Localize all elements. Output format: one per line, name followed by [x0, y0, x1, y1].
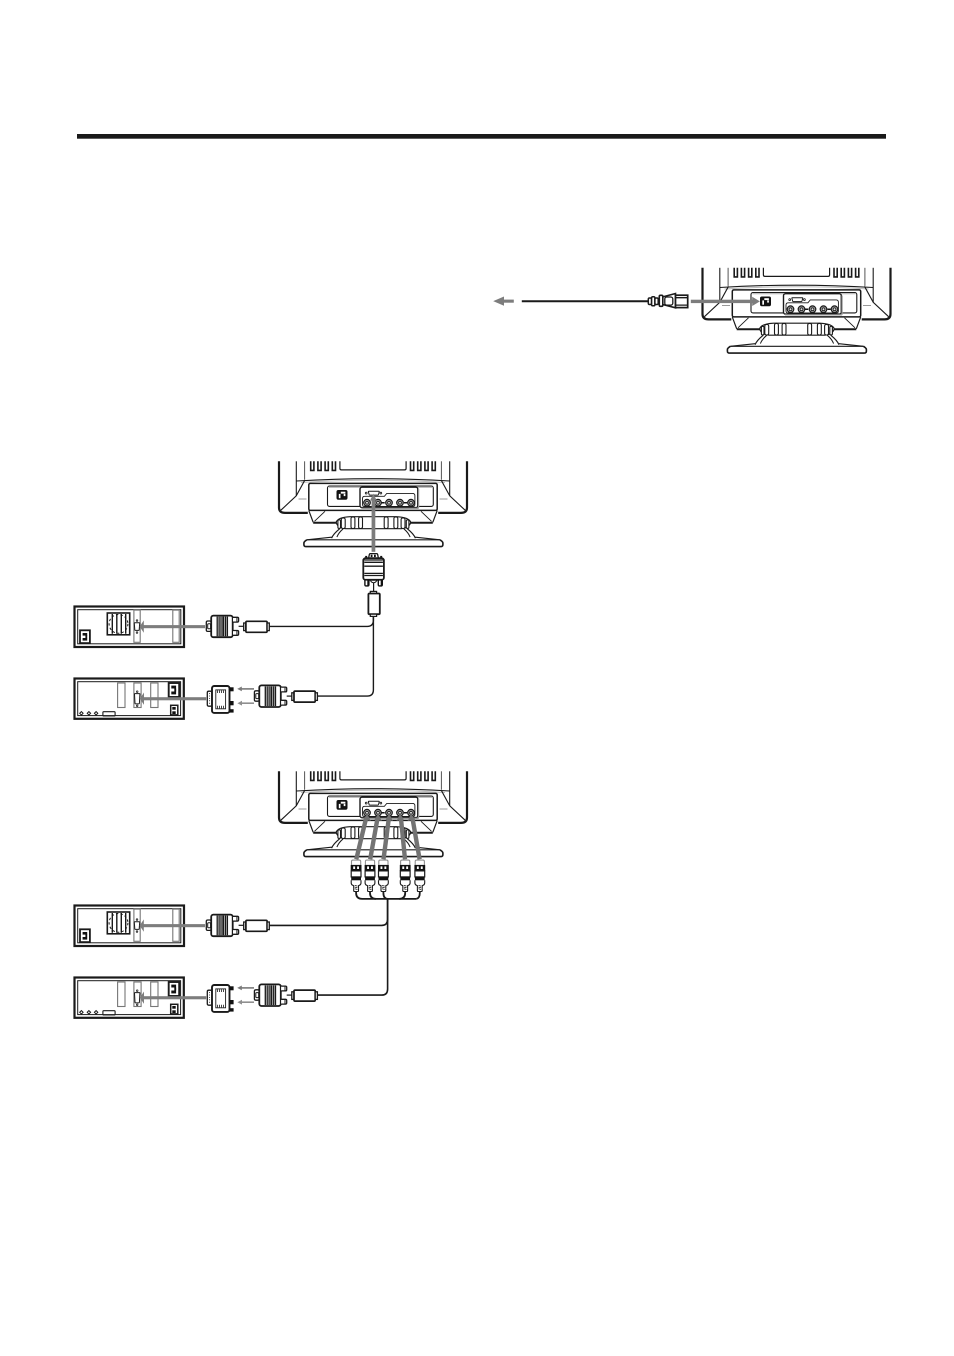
- arrow to wall outlet (left): [493, 297, 514, 306]
- cable from extension to PC (branch): [269, 616, 373, 626]
- cable from extension to Mac adapter (branch): [317, 616, 373, 696]
- monitor rear view bottom: [279, 771, 467, 856]
- single cable to Mac adapter (branch): [317, 899, 387, 995]
- power cord: [522, 300, 649, 302]
- power plug ring: [659, 295, 663, 306]
- power plug body: [663, 294, 676, 308]
- header rule: [77, 134, 886, 139]
- BNC plug G: [365, 860, 376, 891]
- video cable into VGA (gray, with up arrow): [370, 494, 377, 552]
- power plug IEC end: [676, 295, 688, 307]
- five BNC cables with arrows into jacks: [356, 818, 419, 860]
- BNC plug R: [351, 860, 362, 891]
- BNC plug VD: [414, 860, 425, 891]
- pin to extension: [373, 583, 375, 592]
- extension barrel: [370, 591, 376, 593]
- BNC plug HD: [400, 860, 411, 891]
- arrow into AC IN socket: [691, 297, 760, 306]
- HD15 plug below monitor (vertical): [363, 554, 384, 617]
- BNC pigtails merging to bus: [356, 892, 420, 899]
- computers group (bottom section): [75, 906, 318, 1018]
- monitor rear view middle: [279, 461, 467, 546]
- single cable to PC (branch): [269, 899, 387, 926]
- D-shell bottom: [370, 580, 376, 583]
- monitor rear view top-right: [703, 268, 891, 353]
- computers group (middle section): [75, 607, 318, 719]
- thumbscrews: [364, 580, 383, 587]
- BNC plug B: [378, 860, 389, 891]
- power cord strain relief: [648, 294, 687, 308]
